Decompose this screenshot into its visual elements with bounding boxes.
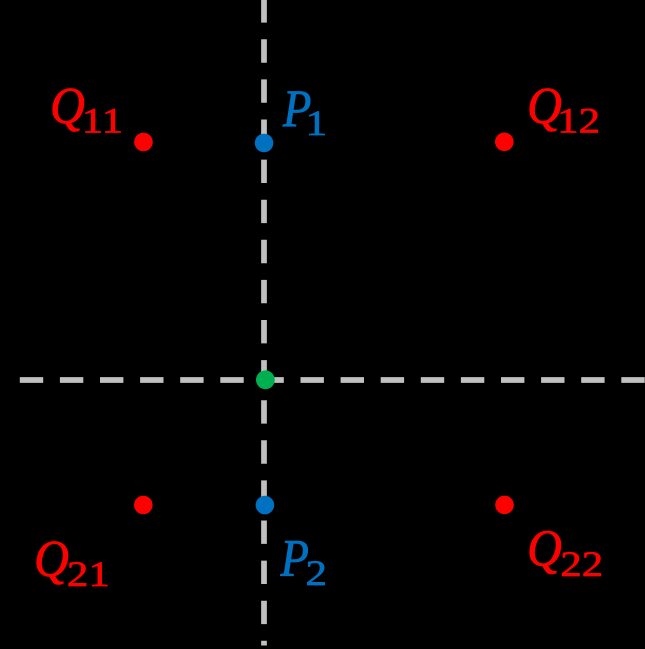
label P2 <box>280 529 327 593</box>
wire: vertical dashed axis x=264 <box>261 0 267 645</box>
label Q22 <box>527 520 603 585</box>
node Q11 (red dot) <box>134 133 153 152</box>
svg-text:21: 21 <box>67 554 110 594</box>
label Q11 <box>50 77 123 140</box>
node P1 (blue dot) <box>255 134 274 153</box>
svg-text:22: 22 <box>560 545 603 585</box>
node Q21 (red dot) <box>134 496 153 515</box>
node P2 (blue dot) <box>256 496 275 515</box>
node Q12 (red dot) <box>495 133 514 152</box>
svg-text:Q: Q <box>34 531 69 588</box>
svg-text:1: 1 <box>306 103 327 143</box>
label Q12 <box>527 77 600 140</box>
node P (green center dot) <box>256 370 275 389</box>
label Q21 <box>34 531 110 595</box>
svg-text:2: 2 <box>306 553 327 593</box>
svg-text:11: 11 <box>82 101 123 141</box>
svg-text:Q: Q <box>50 77 85 134</box>
label P1 <box>282 79 327 143</box>
svg-text:Q: Q <box>527 77 562 134</box>
svg-text:P: P <box>280 529 309 587</box>
svg-text:12: 12 <box>557 101 600 141</box>
svg-text:Q: Q <box>527 520 562 577</box>
node Q22 (red dot) <box>495 496 514 515</box>
wire: horizontal dashed axis y=379.8 <box>20 377 645 383</box>
